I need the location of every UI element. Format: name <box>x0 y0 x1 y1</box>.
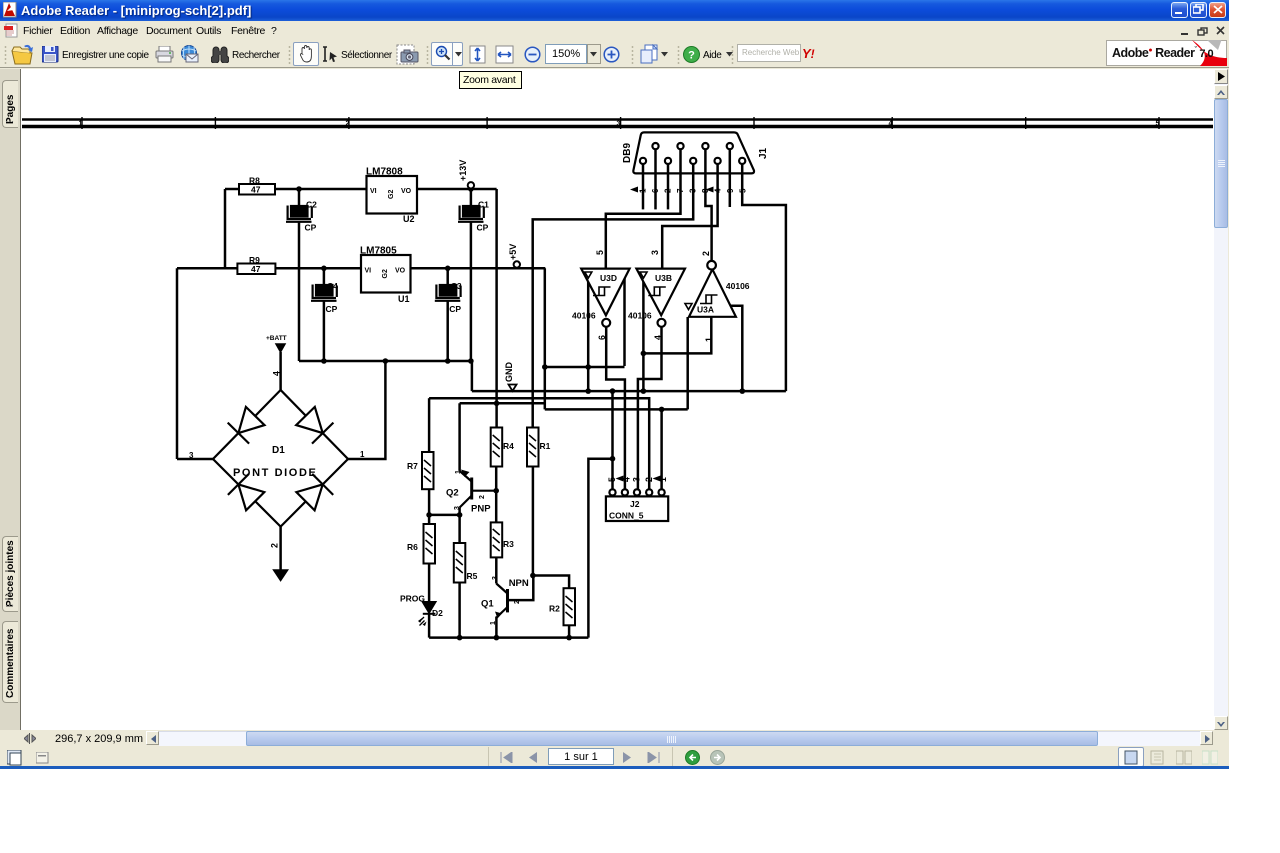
node junction C1 top <box>468 186 474 192</box>
wire R7 to R6 <box>428 489 431 524</box>
resistor R7 <box>407 452 434 489</box>
wire rail H-C 403 <box>460 402 545 405</box>
svg-text:U3B: U3B <box>655 273 672 283</box>
svg-text:3: 3 <box>492 576 499 580</box>
svg-text:R3: R3 <box>503 539 514 549</box>
mdi window controls <box>1180 26 1226 36</box>
svg-text:PONT DIODE: PONT DIODE <box>233 467 317 479</box>
regulator U1 LM7805 <box>360 246 411 305</box>
svg-text:+5V: +5V <box>508 244 518 260</box>
title bar <box>0 0 1229 21</box>
node junction pin1 riser 458 <box>610 456 616 462</box>
wire J1 pin3 to R1 top <box>533 164 694 428</box>
wire U3D output to J2 pin2 <box>606 327 625 492</box>
wire J1 pin4 to U3B input <box>662 164 717 269</box>
svg-text:3: 3 <box>454 506 461 510</box>
svg-text:5: 5 <box>1156 121 1160 128</box>
node junction Q2 base <box>493 488 499 494</box>
node junction 643/353 <box>641 351 647 357</box>
svg-text:4: 4 <box>653 335 663 340</box>
node junction C3 top <box>445 266 451 272</box>
resistor R5 <box>454 543 478 583</box>
power flag +5V <box>508 244 520 268</box>
zoom out circle <box>524 46 541 63</box>
wire gnd jog to bottom bus <box>588 459 612 638</box>
wire gnd bus <box>299 361 472 391</box>
wire R1 bottom to base node <box>532 467 535 576</box>
pin 8 <box>702 143 708 149</box>
svg-text:VI: VI <box>370 188 377 195</box>
wire left feed to R9 <box>177 267 237 270</box>
node junctions on bus1 <box>585 388 591 394</box>
wire U3B output to J2 pin3 <box>638 327 662 492</box>
node junctions bottom bus <box>457 635 463 641</box>
wire +5V drop x=545 <box>544 268 547 409</box>
svg-text:VO: VO <box>395 268 406 275</box>
node junction C1 bottom on gnd bus <box>468 358 474 364</box>
wire R2 bottom to bus <box>568 625 571 637</box>
node junction C2 top <box>296 186 302 192</box>
wire left drop to bridge pin3 <box>176 268 179 459</box>
svg-text:NPN: NPN <box>509 578 529 589</box>
binoculars <box>211 46 229 63</box>
printer <box>155 46 174 63</box>
wire C2 leads <box>298 189 301 206</box>
status bar <box>0 747 1229 766</box>
wire J1 pin7 to U3D input <box>606 149 681 268</box>
svg-text:40106: 40106 <box>726 281 750 291</box>
wire R7 top feed <box>428 398 431 452</box>
sheet frame top border <box>22 117 1213 129</box>
wire J1 pin5 to right edge drop <box>742 164 786 391</box>
svg-text:C4: C4 <box>327 281 338 291</box>
svg-text:CP: CP <box>477 223 489 233</box>
resistor R9 <box>237 255 275 274</box>
resistor R2 <box>549 588 575 625</box>
power flag GND <box>504 362 517 392</box>
wire Q2 emitter drop from rail <box>458 403 461 471</box>
diode D1a top-left <box>228 407 265 444</box>
wire J1 pin9 stub <box>729 149 732 207</box>
svg-text:2: 2 <box>644 477 654 482</box>
svg-text:2: 2 <box>270 543 280 548</box>
wire R8 to U2 input <box>275 188 367 191</box>
svg-text:D1: D1 <box>272 445 285 456</box>
svg-text:R4: R4 <box>503 441 514 451</box>
wire bottom bus <box>429 636 588 639</box>
wire C1 leads <box>470 189 473 206</box>
svg-text:G2: G2 <box>382 269 389 278</box>
wire bridge pin1 riser <box>348 361 385 459</box>
svg-text:Q1: Q1 <box>481 599 494 610</box>
wire bridge pin2 down <box>279 527 282 570</box>
diode D1d bottom-right <box>296 474 333 510</box>
open folder <box>10 44 34 65</box>
svg-text:C1: C1 <box>478 200 489 210</box>
pin 5 <box>739 158 745 164</box>
svg-text:Q2: Q2 <box>446 488 459 499</box>
wire J1 pin6 stub <box>654 149 657 209</box>
svg-text:U3D: U3D <box>600 273 617 283</box>
wire battery plus to bridge pin4 <box>279 352 282 390</box>
wire Q1 base riser <box>508 576 534 601</box>
aide <box>683 46 700 63</box>
node junction C3 bottom <box>445 358 451 364</box>
svg-text:R1: R1 <box>540 441 551 451</box>
node junction J2 pin5 riser <box>659 407 665 413</box>
wire C4 leads <box>323 268 326 285</box>
svg-text:1: 1 <box>360 450 365 459</box>
svg-text:PNP: PNP <box>471 504 491 515</box>
svg-text:R5: R5 <box>467 571 478 581</box>
pin 7 <box>677 143 683 149</box>
svg-text:R2: R2 <box>549 604 560 614</box>
node junction R7/R6 tap <box>426 512 432 518</box>
menu bar <box>0 21 1229 39</box>
node junction C4 top <box>321 266 327 272</box>
svg-text:+13V: +13V <box>458 160 468 181</box>
inverter U3B 40106 <box>628 250 685 340</box>
adobe logo <box>1106 40 1227 66</box>
email globe <box>180 45 199 63</box>
svg-text:1: 1 <box>490 621 497 625</box>
wire J2 pin5 riser <box>660 409 663 492</box>
svg-text:U3A: U3A <box>697 305 714 315</box>
hand tool (selected) <box>293 42 319 66</box>
svg-text:6: 6 <box>597 335 607 340</box>
wire R6 to LED D2 <box>428 564 431 603</box>
h scrollbar row <box>0 730 1229 747</box>
svg-text:47: 47 <box>251 185 261 195</box>
node junction 545/367 <box>542 364 548 370</box>
pin 6 <box>652 143 658 149</box>
wire U1 output +5V rail <box>411 267 546 270</box>
wire +13V drop to R4 <box>495 189 498 428</box>
wire rail H-D 409 <box>545 408 688 411</box>
v scrollbar <box>1214 69 1228 730</box>
svg-text:1: 1 <box>455 470 462 474</box>
svg-text:R7: R7 <box>407 461 418 471</box>
svg-text:4: 4 <box>889 121 893 128</box>
capacitor C1 <box>458 200 489 233</box>
pin circles <box>609 489 615 495</box>
connector J1 DB9 <box>622 132 769 193</box>
diode D1b top-right <box>296 407 333 444</box>
svg-text:D2: D2 <box>432 608 443 618</box>
wire J1 pin8 to U3A bubble <box>705 149 711 261</box>
node junction C4 bottom <box>321 358 327 364</box>
svg-text:G2: G2 <box>388 190 395 199</box>
svg-text:DB9: DB9 <box>622 143 633 163</box>
svg-text:1: 1 <box>704 337 714 342</box>
svg-text:VI: VI <box>365 268 372 275</box>
wire gnd bus1 logic area <box>472 390 786 393</box>
svg-text:CP: CP <box>326 304 338 314</box>
sidebar <box>0 69 20 768</box>
svg-text:J2: J2 <box>630 499 640 509</box>
capacitor C4 <box>311 281 338 314</box>
transistor Q2 PNP <box>446 470 496 515</box>
svg-text:3: 3 <box>632 477 642 482</box>
svg-text:4: 4 <box>272 371 282 376</box>
svg-text:J1: J1 <box>758 147 769 159</box>
wire J2 pin1 riser <box>611 391 614 492</box>
svg-text:PROG: PROG <box>400 594 425 604</box>
svg-text:3: 3 <box>617 121 621 128</box>
wire net 367 horizontal <box>545 366 625 369</box>
node junction R1/Q1 base <box>530 573 536 579</box>
wire U2 output to +13V corner <box>417 188 497 191</box>
node junction on Q2 collector <box>457 512 463 518</box>
power flag bridge minus arrow <box>274 570 288 581</box>
pin 9 <box>727 143 733 149</box>
svg-text:GND: GND <box>504 362 514 383</box>
inverter U3A 40106 <box>685 251 750 342</box>
camera <box>396 44 419 65</box>
wire R4 to R3 <box>495 467 498 523</box>
wire U3A output right <box>729 306 742 391</box>
pane toggle <box>1214 69 1228 84</box>
power flag +BATT <box>266 335 287 352</box>
wire J1 pin2 stub <box>667 164 670 209</box>
svg-text:2: 2 <box>479 495 486 499</box>
toolbar <box>0 39 1229 68</box>
node junction bridge riser on gnd bus <box>383 358 389 364</box>
wire U3D power leg <box>587 272 590 391</box>
power flag +13V <box>458 160 474 189</box>
svg-text:40106: 40106 <box>572 311 596 321</box>
pin 1 <box>640 158 646 164</box>
node junction U3D leg at 367 <box>585 364 591 370</box>
wire LED D2 to bottom bus <box>428 615 431 638</box>
regulator U2 LM7808 <box>366 167 417 225</box>
wire R3 to Q1 collector <box>495 557 498 583</box>
wire vertical 624.5 from gates to 367 <box>623 269 626 366</box>
document <box>20 69 1214 730</box>
combo 150% <box>545 44 587 64</box>
svg-text:47: 47 <box>251 264 261 274</box>
resistor R3 <box>491 522 514 557</box>
fit height <box>469 45 486 64</box>
svg-text:40106: 40106 <box>628 311 652 321</box>
wire left drop R8 row to R9 row <box>224 189 227 268</box>
frame zone numbers <box>79 121 1160 128</box>
LED D2 PROG <box>400 594 443 627</box>
svg-text:VO: VO <box>401 188 412 195</box>
resistor R1 <box>527 428 551 467</box>
wire R9 to U1 input <box>275 267 361 270</box>
wire tap to Q2 collector line <box>429 514 460 517</box>
diode bridge D1 PONT DIODE <box>189 371 365 548</box>
pin 4 <box>715 158 721 164</box>
svg-text:2: 2 <box>346 121 350 128</box>
zoom-in button selected <box>431 42 453 66</box>
wire VI rail to R8 <box>225 188 239 191</box>
wire bridge pin3 horizontal <box>177 458 213 461</box>
wire Q1 emitter to bus <box>495 617 498 638</box>
wire Q2 collector to R5 <box>458 508 461 544</box>
svg-text:LM7808: LM7808 <box>366 167 403 178</box>
resistor R8 <box>239 176 275 195</box>
wire U3B power leg <box>642 272 645 391</box>
wire base node to R2 top <box>533 576 569 589</box>
capacitor C3 <box>435 281 462 314</box>
inverter U3D 40106 <box>572 250 630 340</box>
svg-text:1: 1 <box>79 121 83 128</box>
resistor R4 <box>491 428 514 467</box>
zoom in circle <box>603 46 620 63</box>
save floppy <box>42 46 59 63</box>
svg-text:CP: CP <box>449 304 461 314</box>
capacitor C2 <box>286 200 317 233</box>
svg-text:U2: U2 <box>403 214 415 224</box>
diode D1c bottom-left <box>228 474 264 510</box>
svg-text:+BATT: +BATT <box>266 335 287 342</box>
svg-text:C2: C2 <box>306 200 317 210</box>
svg-text:2: 2 <box>701 251 711 256</box>
pin number labels <box>639 188 748 193</box>
connector J2 CONN_5 <box>606 476 668 522</box>
svg-text:R6: R6 <box>407 542 418 552</box>
wire J2 pin4 riser and rail H-B <box>429 398 649 492</box>
wire U3A leg down <box>686 317 689 409</box>
svg-text:C3: C3 <box>451 281 462 291</box>
svg-text:5: 5 <box>595 250 605 255</box>
svg-text:CONN_5: CONN_5 <box>609 511 644 521</box>
select tool <box>322 46 339 63</box>
svg-text:CP: CP <box>305 223 317 233</box>
pin 3 <box>690 158 696 164</box>
svg-text:3: 3 <box>650 250 660 255</box>
transistor Q1 NPN <box>481 576 529 625</box>
svg-text:2: 2 <box>514 600 521 604</box>
svg-text:LM7805: LM7805 <box>360 246 397 257</box>
pages icon <box>638 44 660 65</box>
resistor R6 <box>407 524 435 564</box>
svg-text:U1: U1 <box>398 294 410 304</box>
fit width <box>495 45 514 64</box>
wire C3 leads <box>446 268 449 285</box>
pin 2 <box>665 158 671 164</box>
web search <box>737 44 801 62</box>
svg-text:3: 3 <box>189 451 194 460</box>
node junction +13V at H-C rail <box>494 401 500 407</box>
svg-text:5: 5 <box>607 477 617 482</box>
wire U3A input pin to leg <box>643 317 711 354</box>
wire R5 to bottom bus <box>458 583 461 638</box>
wire J1 pin1 stub <box>642 164 645 209</box>
